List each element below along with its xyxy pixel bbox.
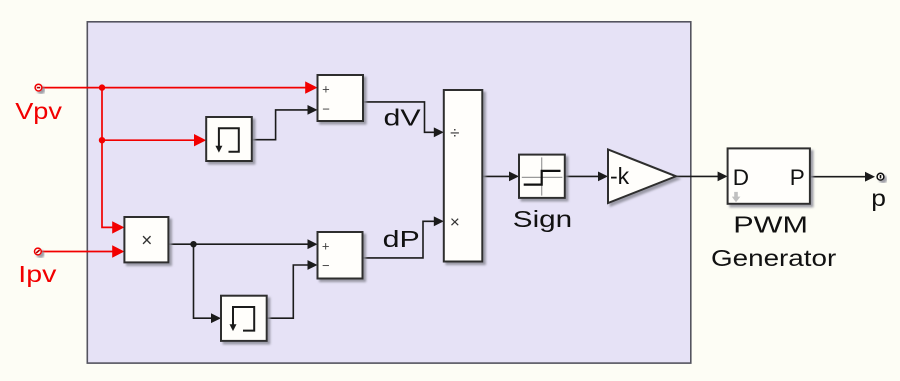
input port 1 Vpv: [35, 84, 42, 91]
PWM Generator block: [728, 148, 810, 203]
wire: sum2 out (dP) to divide bottom input: [363, 221, 435, 258]
black wires: [168, 102, 865, 318]
product block (x): [124, 217, 168, 262]
sum block S1 (dV): [318, 75, 364, 121]
wire: J3 down to delay2 input: [194, 244, 212, 318]
svg-text:P: P: [790, 165, 805, 190]
svg-text:dV: dV: [384, 105, 421, 131]
svg-text:dP: dP: [383, 226, 420, 252]
svg-text:÷: ÷: [450, 124, 459, 143]
node J3: [190, 241, 196, 247]
divide block: [444, 90, 483, 262]
wire red: Vpv to sum1 + input: [42, 88, 307, 252]
svg-text:-k: -k: [610, 163, 630, 189]
svg-text:+: +: [322, 81, 330, 96]
red arrowheads: [112, 81, 317, 257]
subsystem background area: [87, 22, 691, 363]
wire: divide out to Sign: [482, 175, 509, 177]
library badge arrow: [732, 192, 741, 202]
svg-text:×: ×: [450, 213, 460, 232]
unit delay block UD1: [206, 117, 252, 161]
wire red: J2 to delay1 input: [102, 139, 196, 141]
svg-text:−: −: [322, 102, 330, 117]
svg-text:×: ×: [141, 231, 152, 252]
Sign block: [519, 155, 565, 198]
wire: product out to sum2 + input: [168, 243, 308, 245]
wire: PWM out to port p: [810, 176, 866, 178]
sum block S2 (dP): [318, 232, 363, 279]
wire: delay1 out to sum1 - input: [252, 110, 308, 140]
wire: gain out to PWM D input: [676, 175, 718, 177]
svg-text:p: p: [871, 187, 886, 212]
gain block -k: [608, 150, 676, 204]
node J2: [99, 137, 105, 143]
wire red: junction J1 down through J2 to product top input: [102, 88, 114, 228]
svg-text:D: D: [733, 165, 749, 190]
svg-text:−: −: [322, 258, 330, 273]
wire: sum1 out (dV) to divide top input: [363, 102, 435, 132]
unit delay block UD2: [221, 296, 267, 341]
svg-text:Vpv: Vpv: [15, 99, 62, 125]
node J1: [99, 84, 105, 90]
black arrowheads: [211, 105, 875, 323]
svg-text:PWM: PWM: [733, 212, 808, 237]
wire: delay2 out to sum2 - input: [267, 265, 308, 318]
svg-text:+: +: [322, 239, 330, 254]
wire red: Ipv to product bottom input: [42, 251, 114, 253]
svg-text:Sign: Sign: [513, 206, 572, 232]
svg-text:Generator: Generator: [711, 246, 837, 271]
output port p: [877, 173, 884, 180]
svg-text:Ipv: Ipv: [18, 263, 56, 288]
wire: Sign out to gain: [565, 175, 599, 177]
input port 2 Ipv: [35, 248, 42, 255]
